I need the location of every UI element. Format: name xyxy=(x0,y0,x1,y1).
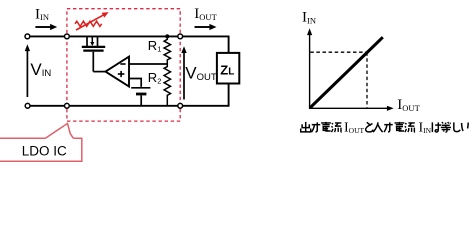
svg-text:LDO IC: LDO IC xyxy=(22,143,67,158)
transistor Q1 (PMOS pass element) xyxy=(82,37,105,72)
input terminal top xyxy=(25,34,30,39)
arrow VOUT xyxy=(181,46,186,99)
variable resistance zigzag (red) xyxy=(75,21,102,26)
resistor R1 xyxy=(164,36,170,64)
arrow IOUT xyxy=(195,24,217,30)
LDO IC dashed boundary box xyxy=(67,9,180,121)
IC pin VOUT xyxy=(178,34,183,39)
x axis IOUT xyxy=(309,106,394,111)
reference voltage source (battery) xyxy=(131,88,150,106)
plus sign xyxy=(118,71,125,77)
arrow IIN xyxy=(35,24,57,30)
variable resistance arrow (red) xyxy=(76,12,109,30)
arrow VIN xyxy=(25,44,30,97)
node feedback junction xyxy=(165,34,169,38)
callout LDO IC xyxy=(0,123,82,161)
wire VIN top rail to ZL xyxy=(27,36,228,53)
minus sign xyxy=(120,63,125,65)
dashed projection vertical xyxy=(366,52,368,107)
transfer line xyxy=(310,37,383,108)
wire op-amp output to gate xyxy=(93,71,105,73)
op-amp U1 (error amplifier) xyxy=(106,57,130,87)
dashed projection horizontal xyxy=(310,51,367,53)
IC pin VIN xyxy=(65,34,70,39)
wire bottom rail to ZL xyxy=(28,84,229,106)
y axis IIN xyxy=(307,28,312,109)
IC pin GND in xyxy=(65,103,70,108)
input terminal bottom xyxy=(25,103,30,108)
resistor R2 xyxy=(164,64,170,106)
IC pin GND out xyxy=(178,103,183,108)
wire non-inverting input to reference xyxy=(129,79,141,87)
load ZL box xyxy=(217,53,239,84)
caption: 出力電流 IOUT と入力電流 IIN は等しい xyxy=(301,120,468,135)
wire inverting input to feedback node xyxy=(129,63,167,65)
